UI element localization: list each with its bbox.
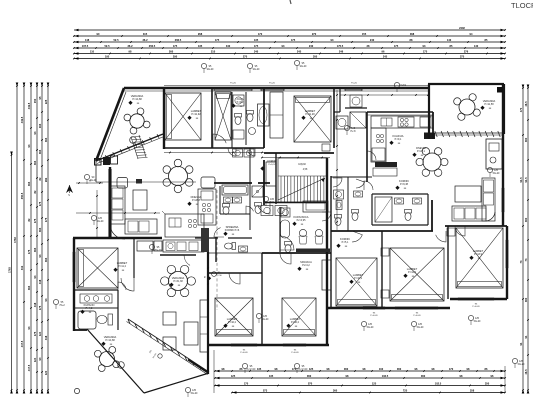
wall rightrooms south bbox=[327, 307, 450, 309]
svg-text:570: 570 bbox=[308, 381, 313, 385]
svg-text:282: 282 bbox=[44, 177, 48, 182]
wall living west bbox=[109, 167, 111, 239]
window west bedroom bbox=[72, 252, 74, 282]
wall core bath east bbox=[249, 148, 251, 230]
svg-text:91.5: 91.5 bbox=[524, 177, 528, 183]
kitchen island aptC bbox=[375, 162, 397, 167]
terrace post circle bbox=[74, 388, 79, 393]
door bedroom A1 bbox=[213, 134, 226, 148]
svg-text:240: 240 bbox=[309, 44, 314, 48]
svg-text:150: 150 bbox=[33, 98, 37, 103]
svg-text:140: 140 bbox=[447, 38, 452, 42]
wall bath east bbox=[117, 290, 119, 330]
wall aptB south bbox=[264, 152, 334, 154]
door right2 bbox=[436, 231, 446, 242]
svg-text:125: 125 bbox=[309, 367, 314, 371]
veranda1 extra chair bbox=[130, 137, 137, 144]
door bath core bbox=[246, 206, 254, 214]
svg-text:175: 175 bbox=[44, 217, 48, 222]
svg-text:155: 155 bbox=[362, 32, 367, 36]
svg-text:363: 363 bbox=[38, 227, 42, 232]
dim line top row4 bbox=[74, 47, 505, 49]
bed right1 bbox=[336, 258, 377, 306]
wall hall north bbox=[334, 111, 340, 113]
dim line left col4 bbox=[36, 86, 38, 390]
svg-text:175: 175 bbox=[173, 44, 178, 48]
dim line left col3 bbox=[30, 86, 32, 390]
svg-text:52.5: 52.5 bbox=[104, 44, 110, 48]
svg-text:102: 102 bbox=[379, 367, 384, 371]
svg-text:36.2: 36.2 bbox=[142, 38, 148, 42]
kitchen counter apt1 column bbox=[198, 189, 216, 225]
side table living bbox=[184, 322, 198, 345]
svg-text:356.5: 356.5 bbox=[149, 44, 156, 48]
stairs bbox=[278, 158, 327, 202]
svg-text:175.5: 175.5 bbox=[337, 44, 344, 48]
dim line top row2 bbox=[74, 35, 505, 37]
bed A1 bbox=[165, 93, 201, 140]
svg-text:P.=10,2: P.=10,2 bbox=[228, 321, 237, 324]
svg-text:350.5: 350.5 bbox=[20, 192, 24, 199]
wall rightrooms divider2 bbox=[447, 226, 449, 299]
svg-text:363: 363 bbox=[44, 257, 48, 262]
svg-text:2402: 2402 bbox=[459, 26, 465, 30]
svg-text:102.5: 102.5 bbox=[382, 374, 389, 378]
svg-text:418: 418 bbox=[44, 335, 48, 340]
svg-text:4,58: 4,58 bbox=[303, 169, 308, 171]
wall kitchen east bbox=[432, 112, 434, 139]
dim line internal horizontal2 bbox=[76, 212, 160, 214]
svg-text:340: 340 bbox=[226, 44, 231, 48]
stair hall appliances bbox=[261, 206, 273, 216]
kitchen peninsula A1 bbox=[201, 177, 215, 188]
svg-text:P.=14,88: P.=14,88 bbox=[105, 339, 115, 342]
svg-text:350: 350 bbox=[485, 381, 490, 385]
svg-text:175: 175 bbox=[254, 44, 259, 48]
wall nw diagonal inner line bbox=[100, 92, 126, 160]
svg-text:P+V=20: P+V=20 bbox=[472, 306, 480, 308]
north arrow symbol bbox=[66, 185, 73, 193]
door bath understairs bbox=[280, 236, 294, 250]
svg-text:340: 340 bbox=[254, 49, 259, 53]
svg-text:P+V=20: P+V=20 bbox=[291, 352, 299, 354]
svg-text:170: 170 bbox=[449, 367, 454, 371]
wall core lower stub bbox=[215, 237, 217, 262]
svg-text:P.=5,1: P.=5,1 bbox=[342, 241, 349, 244]
bath right fixtures2 bbox=[352, 210, 359, 221]
wall storage east bbox=[339, 88, 341, 112]
wall midroom1 north bbox=[208, 272, 262, 274]
dim line left col1 overall bbox=[16, 86, 18, 390]
door bath right bbox=[364, 181, 373, 190]
svg-text:360: 360 bbox=[333, 388, 338, 392]
svg-text:91.5: 91.5 bbox=[519, 177, 523, 183]
svg-text:P.=9,1: P.=9,1 bbox=[395, 138, 402, 141]
wall bedroom-bath divider bbox=[74, 289, 118, 291]
veranda corner posts bbox=[103, 157, 110, 165]
svg-text:246: 246 bbox=[339, 49, 344, 53]
wall top north bbox=[124, 87, 428, 90]
veranda2 column bbox=[497, 87, 503, 93]
wall wc partition2 bbox=[347, 177, 349, 231]
wall aptA east bbox=[263, 88, 265, 148]
leader north1 bbox=[201, 63, 206, 68]
bed B1 nightstand bbox=[322, 144, 330, 151]
small dark block bbox=[136, 179, 142, 184]
veranda railing edge bbox=[96, 134, 163, 161]
window midroom W4 bbox=[231, 343, 257, 345]
svg-text:36.2: 36.2 bbox=[127, 44, 133, 48]
svg-text:417.5: 417.5 bbox=[27, 364, 31, 371]
svg-text:50+20: 50+20 bbox=[367, 326, 374, 329]
svg-text:240: 240 bbox=[370, 38, 375, 42]
wall bath1 divider bbox=[245, 92, 247, 145]
svg-text:470: 470 bbox=[519, 107, 523, 112]
corridor washers bbox=[233, 149, 243, 157]
door kitchen aptC bbox=[367, 151, 376, 160]
svg-text:175: 175 bbox=[291, 38, 296, 42]
svg-text:1763: 1763 bbox=[8, 267, 12, 273]
svg-text:360: 360 bbox=[524, 137, 528, 142]
dim line corridor A1 bbox=[164, 152, 264, 154]
wall core bath south bbox=[220, 213, 250, 215]
sofa apartment D bbox=[452, 206, 486, 221]
wall kitchen north inner bbox=[367, 111, 433, 113]
svg-text:50+20: 50+20 bbox=[518, 363, 525, 366]
wall mid-right boundary west bbox=[326, 158, 328, 345]
corridor south thin line bbox=[208, 252, 262, 254]
dining table apartment C bbox=[423, 153, 441, 171]
svg-text:140: 140 bbox=[474, 44, 479, 48]
bath1 fixtures bbox=[233, 95, 244, 106]
svg-text:124: 124 bbox=[33, 357, 37, 362]
dim line bottom row3 bbox=[215, 385, 505, 387]
wall rightrooms divider1 bbox=[381, 231, 383, 308]
bed right2 bbox=[390, 248, 444, 301]
fridge aptC bbox=[350, 112, 366, 128]
bed mid2 bbox=[282, 298, 316, 336]
dim line internal vertical bbox=[336, 90, 338, 230]
svg-text:46.5: 46.5 bbox=[524, 101, 528, 107]
terrace table and chairs bbox=[100, 352, 115, 367]
svg-text:Pv=4,2: Pv=4,2 bbox=[302, 264, 310, 267]
dim line top row1 overall bbox=[74, 29, 505, 31]
svg-text:210: 210 bbox=[270, 201, 275, 204]
svg-text:P+V=20: P+V=20 bbox=[413, 315, 421, 317]
svg-text:175: 175 bbox=[215, 38, 220, 42]
bottom strip guide left bbox=[213, 350, 215, 393]
svg-text:P.=12,9: P.=12,9 bbox=[408, 271, 417, 274]
wardrobe right1 bbox=[322, 260, 331, 290]
dim line left col0 outer bbox=[11, 155, 13, 390]
bed mid1 bbox=[215, 298, 253, 336]
wall midrooms divider bbox=[261, 253, 263, 345]
wall aptB east bbox=[333, 88, 335, 148]
leader north2 bbox=[247, 63, 252, 68]
bath core2 fixtures bbox=[252, 186, 263, 197]
wall rightliving west bbox=[431, 200, 433, 231]
svg-text:342: 342 bbox=[20, 265, 24, 270]
svg-text:175: 175 bbox=[33, 331, 37, 336]
wall bath1 west bbox=[231, 92, 233, 148]
wall core bath west bbox=[219, 186, 221, 214]
leader se bbox=[512, 358, 517, 363]
dim line internal horizontal bbox=[340, 94, 430, 96]
svg-text:195: 195 bbox=[105, 54, 110, 58]
dim line right col2 bbox=[527, 88, 529, 390]
svg-text:90+20: 90+20 bbox=[300, 65, 307, 68]
wardrobe mid bbox=[200, 300, 208, 352]
svg-text:363: 363 bbox=[33, 160, 37, 165]
svg-text:P+V=20: P+V=20 bbox=[240, 352, 248, 354]
dim line left col2 bbox=[23, 86, 25, 390]
wardrobe apt1 bbox=[137, 241, 153, 251]
svg-text:135: 135 bbox=[198, 44, 203, 48]
projection dashed line bbox=[216, 190, 218, 310]
svg-text:363: 363 bbox=[44, 137, 48, 142]
svg-text:175: 175 bbox=[394, 44, 399, 48]
door bath2 bbox=[248, 148, 256, 156]
wall veranda2 east bbox=[503, 84, 505, 134]
svg-text:1763: 1763 bbox=[13, 237, 17, 243]
planter box bbox=[117, 178, 128, 189]
kitchen counter aptC top bbox=[371, 116, 433, 128]
svg-text:270: 270 bbox=[243, 54, 248, 58]
svg-text:KORNIK P.=6: KORNIK P.=6 bbox=[225, 229, 240, 232]
svg-text:P.=4,2: P.=4,2 bbox=[86, 307, 93, 310]
dim ticks wall mid bbox=[207, 267, 209, 269]
leader kitchen bbox=[394, 82, 399, 87]
wc mid fixtures bbox=[225, 243, 236, 250]
storage top bbox=[350, 95, 362, 107]
door stair hall bbox=[322, 212, 331, 221]
dining table apartment A1 lower bbox=[169, 272, 188, 291]
laundry aptC bbox=[336, 116, 348, 129]
leader right0 bbox=[361, 321, 366, 326]
coffee table D bbox=[455, 186, 481, 202]
wall mid vertical west bbox=[207, 252, 209, 374]
svg-text:163: 163 bbox=[38, 123, 42, 128]
leader veranda bbox=[84, 174, 89, 179]
svg-text:Pv-19: Pv-19 bbox=[400, 87, 407, 90]
window east upper bbox=[501, 188, 503, 212]
svg-text:360: 360 bbox=[307, 374, 312, 378]
svg-text:270: 270 bbox=[312, 32, 317, 36]
svg-text:107.5: 107.5 bbox=[82, 44, 89, 48]
leader mid win2 bbox=[294, 363, 299, 368]
wall right corridor south bbox=[331, 230, 433, 232]
veranda1 table and chairs bbox=[130, 114, 144, 128]
wall veranda2 south hatched bbox=[432, 132, 503, 134]
svg-text:P+V=20: P+V=20 bbox=[247, 368, 256, 371]
bed apt1 bbox=[77, 248, 118, 288]
svg-text:124: 124 bbox=[38, 331, 42, 336]
svg-text:363: 363 bbox=[38, 149, 42, 154]
svg-text:50+20: 50+20 bbox=[417, 326, 424, 329]
sofa apartment A1 bbox=[110, 186, 125, 224]
wall living west hatch bbox=[108, 169, 110, 237]
wall kitchen south bbox=[160, 254, 196, 256]
leader midroom1 bbox=[212, 272, 217, 277]
wall bath understairs west bbox=[279, 207, 281, 252]
door bath corridor bbox=[356, 179, 365, 188]
wall aptA south bbox=[164, 147, 264, 149]
svg-text:P.=22,1: P.=22,1 bbox=[417, 150, 426, 153]
veranda entry steps bbox=[131, 137, 138, 159]
wall hall north2 bbox=[345, 107, 367, 109]
shaft right bbox=[486, 139, 502, 169]
svg-text:170: 170 bbox=[292, 367, 297, 371]
dim line west small bbox=[76, 182, 103, 184]
svg-text:315: 315 bbox=[143, 32, 148, 36]
dim line top row5 bbox=[74, 53, 505, 55]
wardrobe aptB bbox=[270, 92, 283, 138]
svg-text:70+2: 70+2 bbox=[59, 304, 65, 307]
leader right1b bbox=[411, 321, 416, 326]
svg-text:245: 245 bbox=[297, 49, 302, 53]
wall kitchenapt east boundary bbox=[428, 84, 430, 139]
svg-text:120: 120 bbox=[44, 370, 48, 375]
svg-text:363: 363 bbox=[27, 181, 31, 186]
door corridor A1 bbox=[258, 201, 270, 214]
svg-text:276: 276 bbox=[464, 49, 469, 53]
wall top sill lines bbox=[124, 90, 428, 92]
wall east upper bbox=[502, 84, 504, 226]
svg-text:418: 418 bbox=[33, 302, 37, 307]
svg-text:125: 125 bbox=[372, 381, 377, 385]
svg-text:135: 135 bbox=[269, 374, 274, 378]
svg-text:363: 363 bbox=[33, 247, 37, 252]
svg-text:P.=28,8: P.=28,8 bbox=[192, 199, 201, 202]
svg-text:P.=11,92: P.=11,92 bbox=[191, 113, 201, 116]
svg-text:358: 358 bbox=[470, 388, 475, 392]
wall bedroom east bbox=[133, 238, 135, 278]
leader east bbox=[487, 167, 492, 172]
svg-text:419.5: 419.5 bbox=[20, 116, 24, 123]
svg-text:368: 368 bbox=[410, 32, 415, 36]
svg-text:Pv=4,95: Pv=4,95 bbox=[297, 219, 307, 222]
bed A1 single bbox=[215, 92, 231, 140]
svg-text:P+V=20: P+V=20 bbox=[299, 368, 308, 371]
svg-text:360: 360 bbox=[397, 367, 402, 371]
svg-text:360: 360 bbox=[421, 374, 426, 378]
dim line top row6 bbox=[74, 58, 505, 60]
bath understairs fixtures bbox=[281, 208, 290, 217]
wall bath south bbox=[74, 329, 87, 331]
svg-text:363: 363 bbox=[27, 285, 31, 290]
svg-text:P.=10,2: P.=10,2 bbox=[291, 321, 300, 324]
bottom strip guide right bbox=[504, 366, 506, 393]
kitchen counter aptC side bbox=[371, 128, 386, 162]
wall living southwest glazed diagonal bbox=[128, 319, 209, 372]
svg-text:46.5: 46.5 bbox=[524, 369, 528, 375]
window rightroom W8 bbox=[458, 297, 494, 299]
svg-text:Pv=20: Pv=20 bbox=[351, 83, 358, 85]
svg-text:P.=11,28: P.=11,28 bbox=[305, 113, 315, 116]
bath right walls bbox=[372, 194, 428, 225]
svg-text:360: 360 bbox=[524, 297, 528, 302]
bath2 tub bbox=[258, 104, 270, 126]
svg-text:268: 268 bbox=[198, 32, 203, 36]
leader mid win1 bbox=[242, 363, 247, 368]
svg-text:102.5: 102.5 bbox=[435, 381, 442, 385]
svg-text:50+20: 50+20 bbox=[262, 318, 269, 321]
svg-text:50+20: 50+20 bbox=[474, 320, 481, 323]
wall right bedroom south bbox=[450, 298, 507, 300]
svg-text:175: 175 bbox=[38, 305, 42, 310]
wall kitchen inner sill bbox=[367, 114, 433, 116]
svg-text:360: 360 bbox=[524, 217, 528, 222]
wall midrooms south bbox=[208, 344, 329, 346]
top small mark bbox=[290, 0, 291, 4]
wall aptA divider bbox=[211, 88, 213, 148]
door bedroom apt1 bbox=[121, 278, 134, 291]
svg-text:P.=11,58: P.=11,58 bbox=[484, 103, 494, 106]
svg-text:170: 170 bbox=[244, 381, 249, 385]
door right3 bbox=[455, 226, 465, 236]
terrace extra chair bbox=[118, 362, 125, 369]
svg-text:10|9,82: 10|9,82 bbox=[298, 164, 306, 166]
bath core fixtures bbox=[222, 185, 248, 195]
svg-text:225: 225 bbox=[44, 99, 48, 104]
svg-text:P.=4,2: P.=4,2 bbox=[237, 101, 244, 104]
bed right2 nightstands bbox=[381, 248, 389, 256]
svg-text:TLOCR: TLOCR bbox=[511, 1, 533, 10]
svg-text:P.=10,9: P.=10,9 bbox=[354, 277, 363, 280]
svg-text:175: 175 bbox=[33, 218, 37, 223]
svg-text:260: 260 bbox=[169, 49, 174, 53]
bath2 fixtures bbox=[247, 111, 254, 122]
wall corridor south bbox=[262, 252, 331, 254]
svg-text:50+20: 50+20 bbox=[493, 172, 500, 175]
dining table apartment A1 upper bbox=[169, 167, 188, 186]
terrace south edge bbox=[144, 373, 209, 393]
hall cabinet bbox=[266, 162, 276, 186]
door mid1 bbox=[229, 273, 240, 284]
svg-text:210: 210 bbox=[211, 49, 216, 53]
terrace edge line y182 bbox=[96, 181, 196, 183]
svg-text:135: 135 bbox=[254, 38, 259, 42]
leader west bbox=[53, 299, 58, 304]
door living bbox=[184, 255, 196, 265]
svg-text:P.=5,57: P.=5,57 bbox=[268, 164, 276, 166]
svg-text:P.=14,88: P.=14,88 bbox=[132, 98, 142, 101]
leader right2b bbox=[468, 315, 473, 320]
wall northwest diagonal bbox=[96, 88, 124, 161]
svg-text:P+V=20: P+V=20 bbox=[370, 315, 378, 317]
svg-text:P.=31,38: P.=31,38 bbox=[173, 280, 183, 283]
dim line top row3 bbox=[74, 41, 505, 43]
window rightroom W6 bbox=[363, 306, 385, 308]
leader living w bbox=[91, 215, 96, 220]
svg-text:375: 375 bbox=[460, 54, 465, 58]
wall west of bedroom A1 bbox=[163, 88, 165, 149]
wall stair west upper bbox=[263, 160, 265, 205]
svg-text:Pv-8: Pv-8 bbox=[351, 130, 357, 133]
wall mid-right boundary east bbox=[330, 176, 332, 308]
wall core north a bbox=[214, 182, 252, 184]
svg-text:Pv=20: Pv=20 bbox=[230, 83, 237, 85]
leader hall c bbox=[344, 125, 349, 130]
entry mark bbox=[158, 354, 162, 358]
svg-text:175: 175 bbox=[27, 249, 31, 254]
svg-text:90+20: 90+20 bbox=[207, 68, 214, 71]
leader mid0 bbox=[256, 313, 261, 318]
svg-text:50+20: 50+20 bbox=[191, 392, 198, 395]
svg-text:175: 175 bbox=[38, 201, 42, 206]
svg-text:148: 148 bbox=[85, 38, 90, 42]
wall living south bbox=[73, 237, 162, 239]
